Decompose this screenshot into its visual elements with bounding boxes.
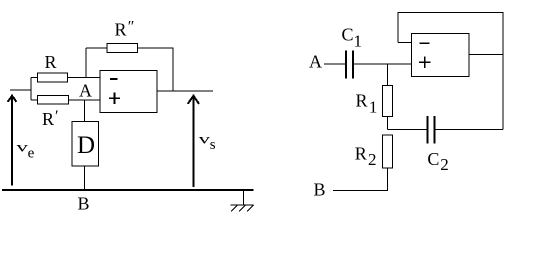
op-amp U2 plus sign [419,57,431,69]
wire R' to op-amp plus [69,99,101,101]
wire feedback loop [398,12,503,129]
resistor R1 [383,86,393,117]
op-amp U1 plus sign [109,93,120,104]
wire C2 to feedback [436,129,503,131]
wire R'' right feedback [138,48,174,91]
svg-text:D: D [77,132,95,159]
wire C1 to op-amp plus [354,63,412,65]
wire input stub left [10,89,31,91]
wire op-amp U2 minus input [398,42,412,44]
resistor R2 [383,135,393,168]
wire node to R1 [387,64,389,86]
svg-text:e: e [28,146,35,162]
wire bar to R [31,77,38,79]
svg-text:A: A [79,81,92,101]
wire op-amp U2 output [469,54,503,56]
wire R to op-amp minus [68,77,101,79]
wire R2 to B [333,168,388,191]
op-amp U1 [100,71,157,113]
wire output [157,90,213,92]
svg-text:B: B [78,194,90,214]
op-amp U2 [412,34,469,77]
svg-text:A: A [309,52,322,72]
op-amp U1 minus sign [110,78,118,80]
wire A to C1 [324,63,345,65]
wire junction to C2 [388,129,427,131]
wire R1 to junction [387,117,389,130]
resistor R' [38,96,69,105]
ground [231,190,254,212]
wire D bottom [84,166,86,190]
svg-text:R: R [45,52,57,72]
capacitor C2 [427,116,434,144]
wire node A vertical [85,48,87,78]
component D [72,122,98,166]
wire R'' left [86,47,107,49]
wire bar to R' [31,99,38,101]
svg-text:s: s [210,137,216,153]
wire junction bar [30,78,32,101]
svg-text:B: B [314,180,326,200]
wire D top [84,100,86,122]
wire bottom rail [2,189,254,191]
arrow v_e [8,95,17,186]
arrow v_s [188,95,199,187]
resistor R [38,73,68,82]
resistor R'' [107,44,138,53]
capacitor C1 [346,51,353,79]
op-amp U2 minus sign [420,42,430,44]
label v_e [16,140,34,162]
label v_s [199,132,216,153]
